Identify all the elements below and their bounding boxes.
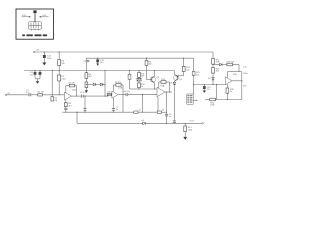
diode D4 under Q2 <box>173 82 176 84</box>
svg-text:C5 47n: C5 47n <box>80 92 86 94</box>
input terminal IN <box>5 94 6 95</box>
svg-text:1k: 1k <box>139 110 141 112</box>
U2A inverting input wire <box>139 88 157 90</box>
transistor Q1 <box>152 76 155 83</box>
input wire <box>7 94 65 96</box>
resistor R8 (U1B feedback) <box>116 84 121 87</box>
ground under C14 <box>203 91 206 93</box>
capacitor at output node <box>173 121 176 123</box>
svg-text:C6 47n: C6 47n <box>124 91 130 93</box>
+9V rail (rail1) <box>35 51 213 53</box>
wire Vref to signal node <box>104 71 106 97</box>
U1B output wire <box>118 94 157 96</box>
U1B gain network to bus <box>112 98 114 112</box>
svg-text:10k: 10k <box>149 64 152 66</box>
capacitor C11 (Vref filter) <box>34 71 36 79</box>
diode D5 on output line <box>143 122 146 125</box>
svg-text:+: + <box>40 54 42 56</box>
title block box (jack wiring detail) <box>16 9 54 39</box>
op-amp U2B <box>226 77 232 85</box>
svg-text:10k: 10k <box>186 69 189 71</box>
resistor in bus <box>134 111 138 113</box>
resistor R17 to ground <box>184 123 186 137</box>
svg-text:10k: 10k <box>107 92 110 94</box>
wire Vref drop to input node <box>51 71 53 95</box>
trim connector block <box>187 94 193 104</box>
svg-text:1k: 1k <box>230 91 232 93</box>
resistor R16 <box>212 68 215 74</box>
resistor R13 (U2A feedback) <box>161 81 166 84</box>
capacitor C12 (Vref filter) <box>35 71 40 82</box>
right arrow to ring <box>39 16 48 18</box>
jack sleeve symbol <box>34 11 37 23</box>
svg-text:R5 47k: R5 47k <box>68 83 74 85</box>
output terminal <box>202 123 203 124</box>
clipping diodes D1 D2 <box>86 83 105 85</box>
U1A output wire <box>71 95 112 97</box>
resistor R1 (series input) <box>38 94 43 96</box>
branch wire to charge line <box>213 65 239 72</box>
capacitor C8 <box>165 114 168 116</box>
svg-text:U1A: U1A <box>72 89 77 92</box>
U2A feedback wire <box>159 82 170 92</box>
svg-text:D5: D5 <box>142 120 145 122</box>
svg-text:1k: 1k <box>141 86 143 88</box>
svg-text:Q1: Q1 <box>156 77 160 79</box>
Vref rail (rail3) <box>24 70 174 72</box>
svg-text:Q2: Q2 <box>179 79 183 81</box>
transistor Q2 <box>174 74 178 81</box>
ground under R17 <box>183 137 187 140</box>
Vref rail2 <box>86 57 193 59</box>
capacitor C1 (input) <box>29 93 31 96</box>
Vref divider R9/R10 <box>85 58 87 90</box>
svg-text:47u: 47u <box>30 74 33 76</box>
capacitor C2 at rail2 start <box>87 60 90 61</box>
diodes D1 D2 pair <box>137 79 139 81</box>
U1A gain network to bus <box>65 100 67 112</box>
svg-text:R18 10k: R18 10k <box>227 62 234 64</box>
svg-text:10k: 10k <box>61 63 64 65</box>
left arrow to tip <box>22 16 31 18</box>
resistor R12 <box>138 83 141 88</box>
ground under Vref caps <box>36 81 40 84</box>
U1B feedback wire <box>113 85 123 112</box>
U2B lower resistor R19 <box>226 84 228 100</box>
svg-text:R1 1M: R1 1M <box>38 92 44 94</box>
svg-text:D6: D6 <box>208 78 211 80</box>
Vref drop to U2B input <box>194 58 226 94</box>
op-amp U2A <box>157 87 165 96</box>
diode D7 <box>219 63 221 66</box>
U2A output wire <box>165 91 172 93</box>
+9V terminal <box>34 51 35 52</box>
output line <box>77 122 202 124</box>
svg-text:4k7: 4k7 <box>141 76 145 78</box>
resistor R5 (U1A feedback) <box>69 84 74 87</box>
svg-text:47n: 47n <box>26 92 29 94</box>
capacitor C13 on rail1 <box>43 52 45 63</box>
resistor on fb bottom <box>210 98 216 101</box>
op-amp U1A <box>65 92 72 100</box>
svg-text:C15: C15 <box>243 66 248 68</box>
jack connector body grid <box>29 22 42 31</box>
svg-text:47u: 47u <box>207 89 210 91</box>
svg-text:10k: 10k <box>196 74 199 76</box>
ground under divider <box>85 90 88 93</box>
U2B output wire <box>232 80 242 82</box>
wire Q2 emitter down to output line <box>173 85 175 121</box>
ground under C13 <box>42 63 46 66</box>
resistor R4 <box>64 103 67 107</box>
svg-text:R8 47k: R8 47k <box>115 82 121 84</box>
op-amp U1B <box>112 91 118 98</box>
box caption <box>22 34 47 36</box>
resistor R11 chain from Vref rail <box>137 71 140 90</box>
resistor R15 <box>212 59 215 65</box>
svg-text:100u: 100u <box>47 58 51 60</box>
svg-text:1k: 1k <box>162 110 164 112</box>
svg-text:1u: 1u <box>116 109 118 111</box>
resistor bias branch to U2A input <box>130 71 140 90</box>
U1A feedback wire <box>66 86 77 97</box>
svg-text:1u: 1u <box>169 116 171 118</box>
resistor 10k series to U1B <box>107 93 111 95</box>
capacitor C5 (interstage) <box>81 95 83 98</box>
resistor from rail2 to Q2 <box>179 58 184 75</box>
svg-text:+9V: +9V <box>36 50 40 52</box>
diode D6 <box>212 78 215 80</box>
shunt to bus after C5 <box>84 96 86 112</box>
resistor R6 from rail1 <box>58 52 60 71</box>
svg-text:10k: 10k <box>216 71 219 73</box>
svg-text:100k: 100k <box>188 129 192 131</box>
svg-text:4k7: 4k7 <box>68 105 72 107</box>
resistor on Vref drop <box>192 71 195 75</box>
capacitor C6 (interstage) <box>126 93 128 96</box>
resistor from rail2 to Q1 base <box>147 58 152 79</box>
capacitor C14 to ground <box>203 85 205 91</box>
svg-text:D4: D4 <box>170 83 173 85</box>
svg-text:100k: 100k <box>210 105 214 107</box>
resistor R2 at input node <box>51 97 54 101</box>
svg-text:U2A: U2A <box>160 84 165 87</box>
rail1 drop at right <box>212 52 214 85</box>
resistor in bus <box>157 111 161 113</box>
svg-text:U1B: U1B <box>119 88 124 90</box>
svg-text:4.5V: 4.5V <box>22 15 27 17</box>
svg-text:510k: 510k <box>61 78 65 80</box>
capacitor C3 <box>64 108 67 110</box>
wire to bus at 142.5 <box>142 95 144 113</box>
svg-text:100n: 100n <box>243 73 247 75</box>
wire U2A out down to output line <box>166 92 168 123</box>
svg-text:4k7: 4k7 <box>88 76 92 78</box>
wire bus to output line <box>76 112 78 123</box>
U2A shunt to bus <box>157 97 159 112</box>
resistor R18 <box>227 63 233 66</box>
svg-text:47u: 47u <box>100 62 103 64</box>
capacitor C10 on rail2 <box>97 58 99 63</box>
svg-text:10k: 10k <box>243 86 246 88</box>
ground/feedback bus <box>62 111 166 113</box>
svg-text:1M: 1M <box>54 100 57 102</box>
svg-text:4.5V: 4.5V <box>42 15 47 17</box>
resistor R7 (bias) <box>58 71 60 95</box>
U2B feedback loop <box>205 72 242 100</box>
svg-text:OUT: OUT <box>189 121 195 123</box>
svg-text:U2B: U2B <box>233 74 238 76</box>
